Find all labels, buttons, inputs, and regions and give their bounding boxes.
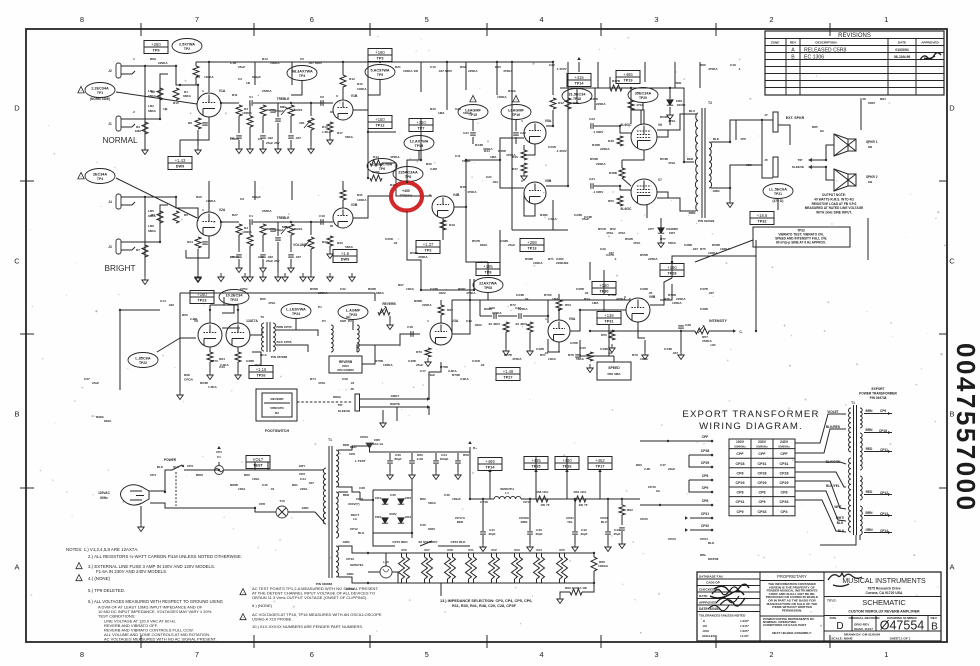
svg-text:TP14: TP14 — [485, 466, 495, 470]
wire PI inputs — [500, 160, 524, 188]
svg-text:V1B: V1B — [351, 94, 358, 98]
wire segments for density — [446, 62, 448, 90]
svg-text:BRN: BRN — [689, 211, 696, 215]
svg-text:25uF: 25uF — [582, 217, 589, 221]
svg-text:C37: C37 — [84, 377, 90, 381]
doubler box wires — [365, 445, 369, 447]
svg-text:5: 5 — [425, 650, 429, 659]
svg-text:56KA: 56KA — [345, 135, 354, 139]
svg-text:6V8: 6V8 — [447, 548, 453, 552]
svg-text:TP26: TP26 — [256, 374, 265, 378]
voltage callout +150 TP12 — [368, 116, 392, 129]
svg-text:REVERB: REVERB — [271, 397, 285, 401]
svg-text:BRN: BRN — [521, 520, 528, 524]
svg-text:C-: C- — [739, 330, 742, 334]
svg-text:J1: J1 — [108, 122, 112, 126]
svg-text:B2: B2 — [275, 411, 279, 415]
svg-text:R68 1KA: R68 1KA — [536, 490, 549, 494]
svg-text:CPF: CPF — [702, 435, 709, 439]
svg-text:6: 6 — [336, 94, 338, 98]
svg-text:R16: R16 — [322, 125, 328, 129]
svg-text:0047557000: 0047557000 — [951, 343, 980, 513]
svg-text:CP4: CP4 — [150, 473, 156, 477]
svg-text:CAD5 OP: CAD5 OP — [706, 581, 720, 585]
svg-text:GRN/YEL: GRN/YEL — [350, 563, 364, 567]
svg-text:20µF: 20µF — [535, 532, 542, 536]
diode CR6 — [667, 100, 673, 105]
svg-text:80µF: 80µF — [394, 457, 401, 461]
gnd speaker line — [729, 188, 731, 200]
svg-text:A: A — [949, 563, 954, 572]
svg-text:470A: 470A — [618, 231, 626, 235]
svg-text:CP9: CP9 — [702, 486, 709, 490]
svg-text:.XX: .XX — [702, 624, 708, 628]
svg-text:CP33: CP33 — [758, 510, 767, 514]
svg-text:BLK/YEL: BLK/YEL — [826, 484, 840, 488]
svg-text:R58: R58 — [463, 453, 469, 457]
tube V2A — [197, 212, 221, 236]
svg-text:TP23: TP23 — [230, 298, 238, 302]
svg-text:20uF: 20uF — [668, 467, 675, 471]
svg-text:8: 8 — [80, 15, 84, 24]
svg-text:V5A: V5A — [545, 119, 552, 123]
svg-text:C17: C17 — [420, 369, 426, 373]
v9b parts — [609, 330, 615, 340]
voltage callout +250 TP9 — [144, 41, 168, 54]
plate resistor above V1A — [193, 66, 199, 77]
svg-text:RING: RING — [333, 395, 341, 399]
svg-text:.0022: .0022 — [474, 323, 482, 327]
svg-text:CP9: CP9 — [759, 500, 766, 504]
svg-text:MID: MID — [280, 105, 286, 109]
svg-text:+1.43: +1.43 — [175, 158, 186, 163]
svg-text:25uF 25V: 25uF 25V — [266, 141, 281, 145]
svg-text:3.3KA: 3.3KA — [448, 369, 458, 373]
svg-text:R42: R42 — [558, 101, 564, 105]
svg-text:7: 7 — [195, 15, 199, 24]
svg-text:2.2M: 2.2M — [190, 317, 197, 321]
svg-text:C45: C45 — [262, 483, 268, 487]
svg-text:J8: J8 — [350, 387, 354, 391]
test point callout TP6 — [367, 159, 397, 174]
reverb cable coil P2 — [357, 325, 359, 352]
revisions table — [765, 31, 944, 95]
svg-text:D: D — [949, 104, 955, 113]
svg-text:CP8: CP8 — [259, 502, 265, 506]
coupling cap C21 below TP15 — [472, 120, 474, 131]
svg-text:V5B: V5B — [545, 179, 552, 183]
svg-text:.1 600V: .1 600V — [556, 149, 568, 153]
voltage callout VOLT TEST — [246, 456, 270, 469]
svg-text:C32: C32 — [340, 287, 346, 291]
svg-text:+450: +450 — [402, 189, 410, 193]
test point callout TP08 — [473, 278, 503, 293]
svg-text:4: 4 — [540, 15, 544, 24]
T1 heater wires — [338, 546, 368, 553]
svg-text:R85: R85 — [812, 125, 818, 129]
wire jack J4 to grid — [136, 197, 198, 221]
svg-text:220KA: 220KA — [492, 311, 502, 315]
speaker jack J5 — [773, 157, 778, 177]
svg-text:20µF: 20µF — [580, 532, 587, 536]
junction dots — [175, 65, 177, 67]
svg-text:2: 2 — [133, 110, 135, 114]
svg-text:R27: R27 — [232, 213, 238, 217]
wire reverb grid bus — [180, 292, 375, 294]
svg-text:V6: V6 — [658, 123, 662, 127]
test point callout TP20 — [628, 88, 658, 103]
svg-text:PERMISSION.: PERMISSION. — [782, 608, 802, 612]
svg-text:SIZE: SIZE — [830, 616, 837, 620]
svg-text:P/N 034883: P/N 034883 — [337, 368, 354, 372]
svg-text:CR4: CR4 — [405, 515, 411, 519]
svg-text:2.) ALL RESISTORS ¼-WATT CARBO: 2.) ALL RESISTORS ¼-WATT CARBON FILM UNL… — [88, 554, 242, 559]
svg-text:+462: +462 — [595, 458, 605, 463]
svg-text:.047: .047 — [308, 481, 314, 485]
svg-text:+1.16: +1.16 — [256, 367, 267, 372]
svg-text:BLU: BLU — [601, 520, 608, 524]
wire upper primary — [212, 469, 219, 471]
svg-text:BLK/RED: BLK/RED — [826, 425, 841, 429]
svg-text:CP28: CP28 — [780, 471, 789, 475]
wire mid right — [466, 207, 488, 262]
bright coupling parts — [320, 219, 322, 225]
svg-text:20µF: 20µF — [488, 532, 495, 536]
svg-text:CR1: CR1 — [375, 496, 381, 500]
ground preamp row — [349, 273, 355, 282]
svg-text:APPROVED:: APPROVED: — [699, 601, 717, 605]
svg-text:.X: .X — [702, 619, 706, 623]
svg-text:1MA: 1MA — [438, 111, 445, 115]
wire b+ column — [867, 218, 869, 260]
svg-text:TREBLE: TREBLE — [277, 97, 290, 101]
svg-text:D: D — [14, 104, 20, 113]
wire bus left extension — [196, 61, 209, 63]
svg-text:470KA: 470KA — [708, 67, 718, 71]
scan speckle noise — [615, 48, 616, 49]
svg-text:13.) IMPEDANCE SELECTION: CP3,: 13.) IMPEDANCE SELECTION: CP3, CP4, CP5,… — [440, 599, 532, 603]
input jack J2 — [116, 63, 121, 78]
svg-text:J7: J7 — [764, 113, 768, 117]
V3A cathode — [425, 348, 431, 357]
svg-text:1A: 1A — [353, 517, 358, 521]
svg-text:R12: R12 — [349, 77, 355, 81]
svg-text:TREBLE: TREBLE — [277, 216, 290, 220]
svg-text:TP7(MA): TP7(MA) — [400, 194, 413, 198]
svg-text:LR1: LR1 — [148, 89, 154, 93]
svg-text:25uF: 25uF — [92, 381, 99, 385]
svg-text:C30B: C30B — [700, 307, 709, 311]
svg-text:CP20: CP20 — [640, 517, 648, 521]
svg-text:56KA: 56KA — [668, 241, 677, 245]
svg-text:R79: R79 — [632, 353, 638, 357]
svg-text:R67: R67 — [398, 283, 404, 287]
svg-text:BRN: BRN — [866, 428, 874, 432]
svg-text:.1: .1 — [738, 67, 741, 71]
svg-text:6V6: 6V6 — [401, 548, 407, 552]
svg-text:C1: C1 — [249, 214, 253, 218]
svg-text:C12: C12 — [258, 255, 264, 259]
svg-text:C: C — [14, 257, 20, 266]
svg-text:470A: 470A — [633, 241, 641, 245]
svg-text:LR2: LR2 — [148, 104, 154, 108]
svg-text:C44: C44 — [300, 477, 306, 481]
svg-text:BLK: BLK — [157, 465, 164, 469]
rectifier bridge CR1-CR4 — [373, 490, 412, 533]
wire osc to v9b — [570, 310, 626, 331]
svg-text:820pF: 820pF — [252, 75, 261, 79]
svg-text:R64: R64 — [219, 357, 225, 361]
vib osc plate — [556, 300, 562, 310]
bright volume pot — [308, 237, 314, 249]
svg-text:SH: SH — [346, 315, 351, 319]
svg-text:NOTES: 1.) V1,2,4,5,8 ARE 12AX: NOTES: 1.) V1,2,4,5,8 ARE 12AX7A. — [66, 547, 138, 552]
svg-text:6A4 1A: 6A4 1A — [373, 442, 384, 446]
svg-text:OUTPUT NOTE:: OUTPUT NOTE: — [822, 193, 846, 197]
svg-text:1: 1 — [884, 15, 888, 24]
svg-text:25uF 25V: 25uF 25V — [266, 259, 281, 263]
svg-text:TP31: TP31 — [604, 320, 613, 324]
power tube V6 6L6GC — [631, 124, 657, 150]
svg-text:1500A: 1500A — [230, 137, 240, 141]
svg-text:220KA: 220KA — [600, 147, 610, 151]
svg-text:L.AGMF: L.AGMF — [346, 309, 361, 313]
svg-text:5: 5 — [425, 15, 429, 24]
svg-text:C35: C35 — [390, 493, 396, 497]
svg-text:220KA: 220KA — [596, 162, 606, 166]
svg-text:CP28: CP28 — [736, 462, 745, 466]
svg-text:10KA: 10KA — [548, 357, 557, 361]
svg-text:100uF: 100uF — [452, 497, 461, 501]
resistor R5 68K — [173, 211, 179, 223]
svg-text:CP14: CP14 — [346, 587, 354, 591]
svg-text:J3: J3 — [108, 245, 112, 249]
svg-text:RED: RED — [675, 81, 682, 85]
wire PI outs — [546, 110, 553, 126]
svg-text:10.) 01X-XXXXX NUMBERS ARE FEN: 10.) 01X-XXXXX NUMBERS ARE FENDER PART N… — [252, 624, 363, 629]
svg-text:5B.3AX7WA: 5B.3AX7WA — [291, 70, 313, 74]
grid resistors 6L6 — [617, 136, 623, 146]
wire spkr bus — [826, 145, 834, 160]
svg-text:56KA: 56KA — [576, 357, 585, 361]
svg-text:600V: 600V — [389, 512, 397, 516]
svg-text:CP7: CP7 — [648, 227, 654, 231]
normal tone extra drop 2 — [275, 118, 281, 120]
svg-text:470A: 470A — [668, 161, 676, 165]
svg-text:C18: C18 — [407, 325, 413, 329]
svg-text:4.) (NONE): 4.) (NONE) — [88, 576, 110, 581]
bright channel tone network — [221, 221, 239, 223]
svg-text:R56 3MA: R56 3MA — [607, 372, 621, 376]
svg-text:50/60Hz: 50/60Hz — [756, 444, 768, 448]
wire preamp B+ bus — [179, 140, 181, 157]
tube V9A vibrato osc — [548, 320, 570, 342]
svg-text:470KA: 470KA — [467, 190, 477, 194]
svg-text:C23: C23 — [589, 117, 595, 121]
svg-text:C1: C1 — [249, 95, 253, 99]
svg-text:R11: R11 — [232, 93, 238, 97]
svg-text:100KA: 100KA — [357, 198, 367, 202]
tube V1B — [333, 100, 353, 120]
svg-text:RED: RED — [866, 447, 873, 451]
svg-text:C6: C6 — [320, 95, 324, 99]
svg-text:220KA: 220KA — [676, 297, 686, 301]
svg-text:60Hz: 60Hz — [100, 496, 108, 500]
wire V3A out — [452, 300, 508, 334]
svg-text:T1: T1 — [328, 438, 332, 442]
svg-text:CP8: CP8 — [737, 471, 744, 475]
svg-text:WIRING DIAGRAM.: WIRING DIAGRAM. — [699, 421, 803, 432]
svg-text:2: 2 — [769, 650, 773, 659]
svg-text:TP1: TP1 — [97, 91, 103, 95]
wire V1B out — [353, 110, 396, 132]
svg-text:+150: +150 — [375, 117, 385, 122]
svg-text:1500A: 1500A — [230, 255, 240, 259]
svg-text:R55: R55 — [601, 333, 607, 337]
v9b plate wire — [650, 278, 672, 305]
spare wire — [479, 300, 481, 316]
svg-text:.02: .02 — [393, 241, 398, 245]
svg-text:CP9A: CP9A — [360, 435, 369, 439]
voltage callout +415 TP14 — [567, 74, 591, 87]
diode CR5 — [366, 443, 373, 448]
voltage callout +185 TP8 — [476, 263, 500, 276]
svg-text:7: 7 — [195, 650, 199, 659]
svg-text:C28: C28 — [685, 323, 691, 327]
svg-text:ANGLES: ANGLES — [702, 634, 715, 638]
wire PI riser — [511, 62, 513, 230]
svg-text:C2: C2 — [238, 77, 242, 81]
svg-text:+465: +465 — [623, 72, 633, 77]
svg-text:CP33: CP33 — [780, 500, 789, 504]
wire bright stage to V2B — [291, 222, 311, 235]
svg-text:±.015": ±.015" — [740, 624, 750, 628]
svg-text:50/60Hz: 50/60Hz — [778, 444, 790, 448]
svg-text:MEASURED AT RATED LINE VOLTAGE: MEASURED AT RATED LINE VOLTAGE — [805, 206, 864, 210]
coupling cap C22 below TP16 — [515, 120, 517, 131]
resistor R7 1M — [142, 245, 148, 257]
svg-text:+415: +415 — [574, 75, 584, 80]
test point callout TP25 — [338, 305, 368, 320]
svg-text:CR3: CR3 — [375, 515, 381, 519]
wire top bus to PI — [380, 62, 553, 95]
svg-text:1: 1 — [521, 119, 523, 123]
svg-text:820A: 820A — [480, 243, 488, 247]
B+ rail — [470, 498, 494, 500]
svg-text:6V2: 6V2 — [491, 548, 497, 552]
svg-text:100KA: 100KA — [708, 251, 718, 255]
svg-text:TP1B: TP1B — [415, 144, 424, 148]
svg-text:GRN: GRN — [713, 189, 721, 193]
svg-text:CR2: CR2 — [405, 496, 411, 500]
svg-text:100KA: 100KA — [720, 247, 730, 251]
svg-text:R48B: R48B — [609, 171, 618, 175]
wire vib net top — [672, 256, 756, 262]
vibrato test note box — [750, 212, 774, 225]
svg-text:T2: T2 — [708, 101, 712, 105]
svg-text:REV.: REV. — [931, 616, 938, 620]
switch dashed link — [175, 472, 177, 506]
ground preamp row — [327, 273, 333, 282]
test point callout TP21 — [763, 184, 793, 199]
svg-text:SLEEVE: SLEEVE — [338, 409, 350, 413]
wires boxes to rail — [489, 470, 491, 499]
svg-text:CP18: CP18 — [480, 500, 488, 504]
svg-text:3.3M: 3.3M — [430, 167, 437, 171]
svg-text:C24: C24 — [589, 177, 595, 181]
svg-text:VIBRATO: VIBRATO — [270, 406, 284, 410]
svg-text:1MA: 1MA — [490, 155, 497, 159]
svg-text:CP29: CP29 — [736, 481, 745, 485]
voltage callout +130 TP30 — [592, 282, 616, 295]
svg-text:P/N 037888: P/N 037888 — [271, 355, 288, 359]
voltage callout +469 TP14 — [478, 458, 502, 471]
wire jack J1 network — [136, 74, 168, 119]
svg-text:CP9: CP9 — [737, 510, 744, 514]
svg-text:1MA: 1MA — [592, 301, 599, 305]
svg-text:P1: P1 — [318, 305, 322, 309]
svg-text:.0022: .0022 — [438, 291, 446, 295]
footswitch jack J8 — [355, 394, 360, 411]
svg-text:1: 1 — [884, 650, 888, 659]
svg-text:VOL: VOL — [299, 121, 305, 125]
PI tail parts — [521, 150, 527, 160]
bright tone extra drop 1 — [247, 235, 253, 246]
tube V2B — [333, 208, 353, 228]
svg-text:T1: T1 — [851, 401, 855, 405]
wire jack J3 network — [136, 205, 168, 242]
wire plate supply row — [560, 87, 684, 89]
wire normal stage to V1B — [291, 103, 311, 116]
svg-text:TP19: TP19 — [623, 79, 632, 83]
svg-text:NEXT HIGHER ASSEMBLY:: NEXT HIGHER ASSEMBLY: — [772, 631, 812, 635]
svg-text:CP31: CP31 — [701, 512, 709, 516]
tube V9B vibrato — [626, 298, 650, 322]
svg-text:CP8: CP8 — [781, 491, 788, 495]
svg-text:V2B: V2B — [351, 203, 358, 207]
svg-text:100KA: 100KA — [383, 363, 393, 367]
voltage callout +190 TP28 — [660, 264, 684, 277]
svg-text:470KA: 470KA — [512, 357, 522, 361]
svg-text:.047: .047 — [672, 351, 678, 355]
export table input stubs — [640, 440, 712, 442]
bus riser v2 — [342, 62, 344, 70]
svg-text:25uF: 25uF — [508, 243, 515, 247]
svg-text:CP8: CP8 — [737, 491, 744, 495]
heater string — [368, 552, 594, 554]
svg-text:1: 1 — [202, 208, 204, 212]
svg-text:R83: R83 — [636, 463, 642, 467]
svg-text:.02: .02 — [480, 363, 485, 367]
vib out gnd — [642, 351, 648, 360]
svg-text:CP29: CP29 — [701, 461, 710, 465]
svg-text:B: B — [14, 410, 19, 419]
svg-text:R98: R98 — [184, 373, 190, 377]
svg-text:R86: R86 — [700, 63, 706, 67]
svg-text:1.5KA: 1.5KA — [322, 130, 332, 134]
svg-text:RED: RED — [350, 445, 357, 449]
svg-text:CP23: CP23 — [668, 537, 676, 541]
svg-text:1B: 1B — [246, 81, 251, 85]
tube V3A reverb recovery — [430, 323, 452, 345]
svg-text:R43: R43 — [430, 107, 436, 111]
svg-text:6L6GC: 6L6GC — [621, 123, 632, 127]
svg-text:TP9: TP9 — [153, 49, 160, 53]
svg-text:+18.6: +18.6 — [757, 213, 768, 218]
svg-text:470KA: 470KA — [503, 69, 513, 73]
footswitch cable — [297, 401, 352, 403]
voltage callout +1.16 TP26 — [249, 366, 273, 379]
